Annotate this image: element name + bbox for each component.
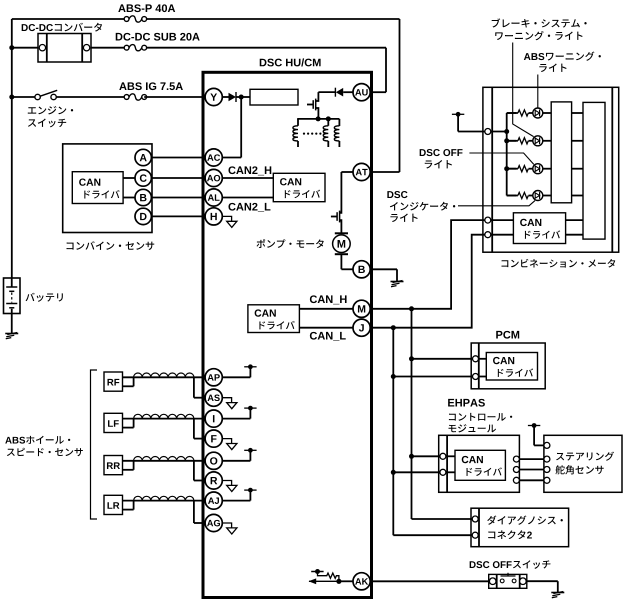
wire CAN_L to diagnosis connector bbox=[393, 534, 472, 536]
inductor solenoid coil L1 bbox=[293, 119, 298, 147]
steering angle sensor U12 box bbox=[544, 435, 622, 492]
inductor solenoid coil L2 bbox=[323, 119, 328, 147]
label ライト (ABS) bbox=[539, 64, 566, 72]
terminal AT bbox=[353, 163, 370, 180]
terminal AO bbox=[205, 169, 222, 186]
CAN driver U4 bbox=[248, 305, 300, 333]
diode D1 bbox=[229, 92, 237, 102]
diode D2 bbox=[335, 88, 343, 97]
label ポンプ・モータ bbox=[257, 239, 324, 248]
terminal R bbox=[205, 472, 222, 489]
pin meter CAN_L connector bbox=[485, 232, 491, 238]
ground F bbox=[222, 439, 237, 450]
node CAN_L to EHPAS junction bbox=[391, 470, 396, 475]
terminal Y bbox=[205, 88, 222, 105]
label ABS IG 7.5A bbox=[119, 82, 183, 90]
terminal B (combine) bbox=[135, 189, 151, 205]
node battery-to-converter junction bbox=[9, 45, 14, 50]
wire CAN_H M to meter bbox=[370, 220, 485, 309]
wire B to ground bbox=[370, 269, 397, 281]
pin EHPAS right connector 3 bbox=[513, 477, 519, 483]
node solenoid bus junction 1 bbox=[316, 116, 321, 121]
label エンジン・スイッチ bbox=[28, 106, 73, 127]
resistor+lamp brake system warning (row2) bbox=[507, 136, 552, 146]
relay coil box K1 bbox=[250, 89, 298, 105]
pin PCM CAN_L connector bbox=[473, 374, 479, 380]
node lamp bus row3 junction bbox=[504, 166, 509, 171]
leader DSC indicator light bbox=[458, 201, 535, 206]
sensor G yaw-rate symbol bbox=[309, 569, 339, 584]
node CAN_H to PCM junction bbox=[409, 356, 414, 361]
terminal O bbox=[205, 452, 222, 469]
wire DC-DC SUB 20A feed bbox=[91, 47, 386, 49]
node CAN_L to PCM junction bbox=[391, 374, 396, 379]
wire row1 block1-block2 bbox=[572, 112, 583, 114]
label ブレーキ・システム・ bbox=[492, 18, 587, 27]
label コントロール・ bbox=[449, 413, 512, 421]
node AK junction bbox=[336, 579, 341, 584]
switch SW1 engine switch bbox=[35, 90, 57, 99]
fuse ABS-P 40A bbox=[124, 16, 146, 22]
resistor+lamp DSC indicator (row4) bbox=[507, 191, 552, 201]
power B+ stub O bbox=[244, 448, 256, 461]
ground terminal H body ground bbox=[222, 216, 237, 227]
wire O B+ stub bbox=[222, 460, 250, 462]
terminal AJ bbox=[205, 492, 222, 509]
wire CAN_H to EHPAS bbox=[412, 455, 441, 457]
label ABS-P 40A bbox=[118, 4, 175, 12]
wire row2 block1-block2 bbox=[572, 140, 583, 142]
terminal F bbox=[205, 430, 222, 447]
wire CAN_L vertical bus bbox=[392, 328, 394, 536]
label ドライバ (U7) bbox=[525, 230, 560, 238]
pin meter CAN_H connector bbox=[485, 217, 491, 223]
wire AL to CAN2 driver bbox=[222, 197, 273, 199]
wire I B+ stub bbox=[222, 418, 250, 420]
wire diode to relay box bbox=[236, 96, 250, 98]
ground pump motor return bbox=[391, 281, 404, 287]
wire EHPAS-steering 2 bbox=[519, 469, 544, 471]
wire lamp bus vertical bbox=[506, 113, 508, 196]
wire B+ to meter connector bbox=[458, 131, 485, 133]
wire meter CAN driver to block2 (H) bbox=[566, 219, 583, 221]
fuse DC-DC SUB 20A bbox=[124, 45, 146, 51]
label モジュール bbox=[448, 424, 496, 432]
label 舵角センサ bbox=[555, 465, 603, 474]
meter driver block 1 bbox=[551, 102, 571, 203]
wire CAN_L to EHPAS bbox=[393, 471, 440, 473]
label ABSホイール・ bbox=[5, 436, 70, 444]
ground battery bbox=[5, 333, 18, 339]
wire motor to B bbox=[341, 254, 353, 269]
wire row3 block1-block2 bbox=[572, 168, 583, 170]
node lamp bus row2 junction bbox=[504, 138, 509, 143]
label CAN (U6) bbox=[79, 179, 100, 186]
wire Q1 drain to diode D2 bbox=[318, 91, 335, 93]
CAN driver U3 (CAN2) bbox=[273, 173, 325, 201]
wire ABS-P 40A feed (top) bbox=[12, 18, 400, 20]
wire battery to DC-DC converter bbox=[12, 47, 38, 49]
pin steering connector 2 bbox=[544, 456, 550, 462]
ground AG bbox=[222, 523, 237, 534]
label PCM bbox=[496, 331, 519, 339]
wire battery to engine switch bbox=[12, 96, 35, 98]
wire AK to DSC OFF switch bbox=[370, 580, 489, 582]
wire battery B+ bus bbox=[11, 19, 13, 278]
wire C to AO bbox=[151, 177, 205, 179]
wire PCM pins to CAN driver bbox=[479, 359, 487, 377]
meter driver block 2 bbox=[583, 102, 605, 239]
label DC-DC SUB 20A bbox=[116, 33, 200, 41]
wire CAN_H vertical bus bbox=[411, 309, 413, 519]
label DSC OFF ライト bbox=[420, 149, 463, 168]
wire AT feed riser bbox=[370, 19, 399, 172]
label EHPAS bbox=[448, 399, 485, 407]
label ドライバ (U11) bbox=[466, 467, 501, 475]
wire coil L3 feed bbox=[338, 119, 340, 126]
label コンビネーション・メータ bbox=[501, 259, 615, 268]
wire meter CAN_L internal bbox=[491, 234, 514, 236]
leader ABS warning light bbox=[537, 75, 539, 109]
terminal AL bbox=[205, 189, 222, 206]
CAN driver U6 (combine) bbox=[72, 172, 123, 204]
sensor LR wheel speed bbox=[104, 495, 205, 523]
label CAN2_L bbox=[228, 203, 270, 212]
pin EHPAS CAN_H connector bbox=[440, 453, 446, 459]
terminal C (combine) bbox=[135, 170, 151, 186]
fuse ABS IG 7.5A bbox=[124, 94, 146, 100]
label CAN_H bbox=[310, 295, 347, 304]
bracket ABS wheel sensors bbox=[91, 370, 98, 519]
wire meter CAN driver to block2 (L) bbox=[566, 234, 583, 236]
pin diagnosis CAN_L connector bbox=[472, 532, 478, 538]
power B+ stub I bbox=[244, 406, 256, 419]
wire Y to diode D1 bbox=[222, 96, 228, 98]
motor M1 pump motor bbox=[333, 233, 351, 254]
wire AK internal bbox=[339, 580, 353, 582]
wire meter CAN_H internal bbox=[491, 219, 514, 221]
wire AJ B+ stub bbox=[222, 500, 250, 502]
ground R bbox=[222, 481, 237, 492]
label ステアリング bbox=[556, 452, 614, 461]
label ワーニング・ライト bbox=[495, 31, 582, 40]
label CAN_L bbox=[310, 332, 346, 341]
wire AP B+ stub bbox=[222, 376, 250, 378]
pin PCM CAN_H connector bbox=[473, 356, 479, 362]
combine sensor U5 box bbox=[63, 144, 152, 233]
wire CAN_H to diagnosis connector bbox=[412, 518, 473, 520]
leader brake warning light bbox=[513, 43, 534, 137]
label CAN (U4) bbox=[255, 309, 276, 316]
pin EHPAS right connector 2 bbox=[513, 467, 519, 473]
sensor LF wheel speed bbox=[104, 413, 205, 438]
wire diode D2 to AU bbox=[343, 91, 353, 93]
resistor+lamp DSC OFF (row3) bbox=[507, 164, 552, 174]
terminal A (combine) bbox=[135, 149, 151, 165]
label CAN (U9) bbox=[493, 357, 514, 364]
node CAN_L bus junction bbox=[391, 325, 396, 330]
pin EHPAS CAN_L connector bbox=[440, 469, 446, 475]
resistor+lamp ABS warning (row1) bbox=[507, 108, 552, 118]
wire CAN_L J to meter bbox=[370, 235, 485, 328]
node battery-to-ignition junction bbox=[9, 95, 14, 100]
CAN driver U7 (meter) bbox=[513, 213, 565, 244]
wire B+ to steering connector bbox=[534, 444, 544, 446]
power B+ stub meter bbox=[452, 112, 464, 132]
label ドライバ (U6) bbox=[84, 190, 119, 198]
terminal B bbox=[353, 261, 370, 278]
label ダイアグノシス・ bbox=[487, 515, 563, 524]
label DSC HU/CM bbox=[260, 58, 321, 66]
wire CAN_H U4 to M bbox=[299, 308, 353, 310]
label DC-DCコンバータ bbox=[22, 23, 102, 32]
label CAN2_H bbox=[228, 166, 271, 175]
label ドライバ (U4) bbox=[259, 321, 294, 329]
node CAN_H to EHPAS junction bbox=[409, 454, 414, 459]
node solenoid bus junction 2 bbox=[326, 116, 331, 121]
wire CAN_H to PCM bbox=[412, 358, 473, 360]
wire engine switch to ABS IG fuse bbox=[56, 96, 126, 98]
wire solenoid supply bus bbox=[297, 118, 339, 120]
wire CAN_L U4 to J bbox=[299, 327, 353, 329]
sensor RR wheel speed bbox=[104, 456, 205, 481]
wire row4 block1-block2 bbox=[572, 195, 583, 197]
pin steering connector 3 bbox=[544, 467, 550, 473]
DC-DC converter U1 bbox=[38, 34, 91, 63]
ground DSC OFF switch bbox=[551, 592, 564, 598]
wire EHPAS-steering 3 bbox=[519, 479, 544, 481]
terminal AU bbox=[353, 84, 370, 101]
terminal D (combine) bbox=[135, 208, 151, 224]
label CAN (U3) bbox=[280, 178, 301, 185]
terminal M bbox=[353, 300, 370, 317]
wire meter feed to lamp bus bbox=[491, 131, 507, 133]
CAN driver U11 (EHPAS) bbox=[455, 450, 505, 480]
wire EHPAS pins to CAN driver bbox=[446, 456, 455, 472]
label CAN (U7) bbox=[520, 219, 541, 226]
pin steering connector 1 bbox=[544, 442, 550, 448]
terminal J bbox=[353, 319, 370, 336]
label コンバイン・センサ bbox=[67, 241, 155, 250]
terminal H bbox=[205, 208, 222, 225]
wire combine CAN driver to B bbox=[123, 197, 135, 199]
diagnosis connector U13 box bbox=[471, 508, 569, 547]
leader DSC OFF light bbox=[469, 153, 533, 164]
terminal I bbox=[205, 410, 222, 427]
label DSC インジケータ・ライト bbox=[387, 191, 455, 222]
terminal AK bbox=[353, 573, 370, 590]
combination meter enclosure bbox=[483, 87, 619, 252]
wire CAN_L to PCM bbox=[393, 376, 472, 378]
CAN driver U9 (PCM) bbox=[486, 353, 537, 381]
wire combine CAN driver to C bbox=[123, 177, 135, 179]
wire ABS IG to terminal Y bbox=[144, 96, 205, 98]
DSC HU/CM U2 enclosure bbox=[203, 72, 372, 597]
label スピード・センサ bbox=[7, 448, 83, 456]
battery BT1 bbox=[4, 278, 21, 314]
wire battery to ground bbox=[11, 314, 13, 334]
EHPAS U10 box bbox=[439, 435, 520, 492]
terminal AC bbox=[205, 149, 222, 166]
wire D to H bbox=[151, 215, 205, 217]
label ドライバ (U9) bbox=[498, 368, 533, 376]
label コネクタ2 bbox=[488, 530, 532, 539]
node Y-diode junction bbox=[239, 95, 244, 100]
power B+ stub AP bbox=[244, 364, 256, 377]
label ドライバ (U3) bbox=[285, 190, 320, 198]
PCM U8 box bbox=[471, 343, 545, 389]
wire DSC OFF switch to ground bbox=[527, 581, 558, 592]
sensor RF wheel speed bbox=[104, 372, 205, 398]
pin steering connector 4 bbox=[544, 477, 550, 483]
transistor Q1 (FET) bbox=[307, 92, 318, 119]
wire A to AC bbox=[151, 157, 205, 159]
pin meter power connector bbox=[485, 129, 491, 135]
ground AS bbox=[222, 398, 237, 409]
terminal AP bbox=[205, 369, 222, 386]
wire AC to Y-diode junction bbox=[222, 97, 241, 158]
label バッテリ bbox=[26, 293, 63, 302]
label DSC OFFスイッチ bbox=[470, 560, 551, 569]
transistor Q2 (FET) bbox=[331, 209, 342, 233]
terminal AS bbox=[205, 389, 222, 406]
label ABSワーニング・ bbox=[524, 51, 601, 60]
pin diagnosis CAN_H connector bbox=[472, 516, 478, 522]
label CAN (U11) bbox=[462, 456, 483, 463]
power B+ stub AJ bbox=[244, 488, 256, 501]
wire AT to Q2 drain bbox=[341, 172, 353, 209]
node CAN_H bus junction bbox=[409, 306, 414, 311]
power B+ stub steering bbox=[528, 423, 540, 445]
wire AO to CAN2 driver bbox=[222, 177, 273, 179]
wire EHPAS-steering 1 bbox=[519, 458, 544, 460]
switch SW2 DSC OFF bbox=[489, 573, 527, 589]
ellipsis dots between solenoids bbox=[303, 133, 326, 135]
wire B to AL bbox=[151, 197, 205, 199]
wire AU feed riser bbox=[370, 48, 386, 92]
terminal AG bbox=[205, 514, 222, 531]
node lamp bus feed junction bbox=[504, 129, 509, 134]
inductor solenoid coil L3 bbox=[334, 126, 339, 147]
pin EHPAS right connector 1 bbox=[513, 456, 519, 462]
